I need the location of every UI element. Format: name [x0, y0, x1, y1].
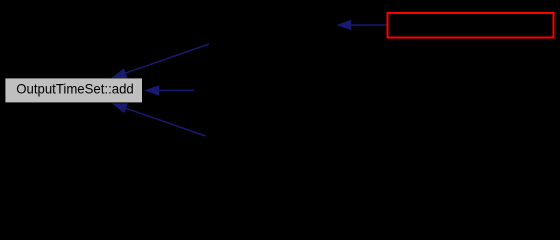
svg-text:OutputTimeSet::add: OutputTimeSet::add [16, 82, 134, 97]
